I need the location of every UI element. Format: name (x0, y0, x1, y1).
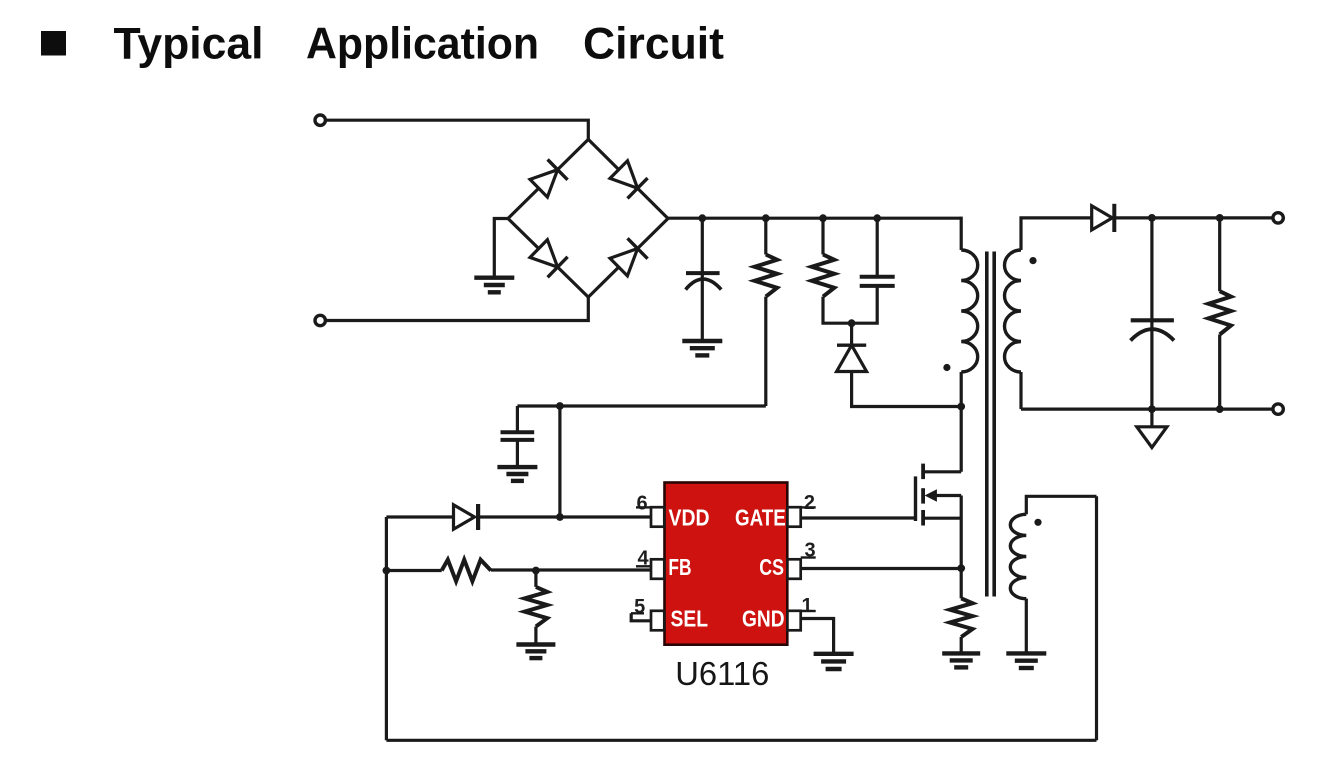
wire FB wire (491, 568, 651, 571)
wire R1 top lead (764, 218, 767, 254)
pin label GND (742, 605, 785, 631)
wire AC line bottom (326, 297, 589, 320)
resistor R1 (755, 255, 778, 297)
ground C1 (682, 341, 722, 355)
capacitor C4 plate top (501, 430, 535, 434)
wire bottom rail (386, 739, 1096, 742)
node outrail-R5 (1216, 405, 1224, 413)
pin label CS (759, 554, 784, 580)
svg-text:VDD: VDD (669, 504, 710, 530)
pin label FB (668, 554, 691, 580)
wire C3 lead (1150, 218, 1153, 409)
wire R5 bottom lead (1218, 335, 1221, 410)
pin number 2 (801, 492, 816, 514)
node bus-C2 (873, 214, 881, 222)
svg-text:1: 1 (801, 595, 812, 617)
pin number 3 (801, 540, 816, 562)
svg-text:GND: GND (742, 605, 785, 631)
node VDD junction (556, 513, 564, 521)
wire D5 cathode lead (850, 323, 853, 345)
wire secondary top lead (1021, 218, 1092, 250)
svg-text:GATE: GATE (735, 504, 786, 530)
svg-text:Circuit: Circuit (583, 20, 724, 69)
wire output top (1114, 216, 1273, 219)
wire CS wire (801, 567, 962, 570)
aux phase dot (1034, 519, 1041, 526)
ground bridge (474, 278, 514, 293)
node CS junction (957, 564, 965, 572)
capacitor C4 plate bottom (501, 438, 535, 442)
capacitor C3 plate (1131, 318, 1174, 322)
wire AC line top (326, 120, 589, 139)
transistor Q1 body stub (925, 489, 962, 502)
title bullet square (41, 31, 66, 56)
wire left vertical (385, 517, 388, 740)
wire FB lead (386, 569, 441, 572)
wire Q1 source line (960, 496, 963, 569)
pin number 6 (636, 492, 651, 514)
svg-text:6: 6 (636, 492, 647, 514)
pin 3 CS box (787, 559, 800, 579)
wire R6 top lead (534, 571, 537, 587)
node bus-R1 (762, 214, 770, 222)
transistor Q1 channel (921, 464, 925, 526)
wire secondary bottom lead (1019, 372, 1022, 409)
wire primary bottom lead (960, 372, 963, 472)
wire output bottom rail (1021, 408, 1273, 411)
node drain junction (957, 403, 965, 411)
svg-text:5: 5 (634, 596, 645, 618)
ground R6 (516, 645, 555, 659)
wire aux bottom lead (1025, 599, 1028, 654)
node FB divider junction (532, 567, 540, 575)
node bus-C1 (698, 214, 706, 222)
wire R4 top lead (960, 568, 963, 598)
wire VDD vertical (558, 406, 561, 517)
capacitor C3 curved plate (1131, 329, 1175, 340)
svg-text:FB: FB (668, 554, 691, 580)
output terminal bottom (1273, 404, 1283, 414)
resistor R4 (950, 598, 973, 637)
pin 4 FB box (651, 559, 664, 579)
wire R2 bottom lead (823, 297, 852, 324)
pin number 1 (801, 595, 816, 617)
diode D7 (454, 504, 479, 530)
transformer core (987, 252, 994, 597)
IC name U6116 (675, 655, 769, 692)
bridge diode D1 (530, 160, 568, 198)
wire D7 anode lead (386, 515, 453, 518)
wire R5 top lead (1218, 218, 1221, 291)
wire R4 bottom lead (960, 637, 963, 653)
wire D5 anode lead (852, 371, 962, 406)
wire C2 bottom lead (852, 286, 878, 323)
ground U1 GND (814, 654, 854, 669)
pin 2 GATE box (787, 507, 800, 527)
pin 5 SEL box (651, 611, 664, 631)
transistor Q1 source stub (923, 517, 961, 520)
wire bridge ground stub (494, 219, 508, 278)
pin label SEL (671, 605, 709, 631)
wire primary top lead (960, 217, 963, 250)
node outrail-C3 (1148, 405, 1156, 413)
wire DC bus (667, 217, 962, 220)
bridge diode D3 (530, 240, 568, 278)
secondary phase dot (1029, 257, 1036, 264)
wire bridge edge top-left (508, 139, 588, 218)
wire bridge edge top-right (588, 139, 668, 218)
diode D5 (837, 345, 867, 371)
svg-text:CS: CS (759, 554, 784, 580)
svg-text:Typical: Typical (114, 20, 264, 69)
svg-text:SEL: SEL (671, 605, 709, 631)
pin 1 GND box (787, 611, 800, 631)
resistor R2 (812, 255, 835, 297)
diode D6 (1092, 204, 1115, 232)
wire bridge edge bottom-right (588, 219, 668, 298)
wire C2 top lead (876, 218, 879, 277)
capacitor C2 plate bottom (860, 284, 895, 288)
resistor R6 (525, 587, 548, 627)
transformer aux winding (1010, 514, 1026, 598)
wire VDD rail (517, 404, 765, 407)
resistor R5 (1208, 291, 1231, 334)
wire output ground stub (1150, 409, 1153, 427)
wire R6 bottom lead (534, 627, 537, 645)
svg-text:Application: Application (306, 20, 539, 69)
capacitor C1 plate (686, 271, 720, 275)
pin 6 VDD box (651, 507, 664, 527)
pin label VDD (669, 504, 710, 530)
ground C4 (497, 467, 537, 481)
wire SEL stub (631, 613, 651, 621)
wire C4 top lead (516, 406, 519, 432)
ground R4 (942, 653, 980, 667)
svg-text:2: 2 (804, 492, 815, 514)
transistor Q1 gate bar (914, 476, 917, 521)
wire aux top lead (1026, 496, 1096, 514)
pin number 5 (631, 596, 645, 618)
AC input terminal top (315, 115, 325, 125)
resistor R3 (442, 560, 491, 582)
op-amp U1 body (665, 483, 788, 645)
ground output triangle (1137, 427, 1167, 448)
bridge diode D2 (610, 161, 648, 199)
wire GND lead (801, 619, 834, 654)
node output-C3 (1148, 214, 1156, 222)
wire aux right vertical (1095, 496, 1098, 740)
primary phase dot (943, 364, 950, 371)
transistor Q1 drain stub (923, 470, 961, 473)
wire R2 top lead (821, 218, 824, 254)
wire C1 lead (701, 218, 704, 341)
node bus-R2 (819, 214, 827, 222)
pin label GATE (735, 504, 786, 530)
pin number 4 (636, 548, 651, 570)
node FB left junction (383, 567, 391, 575)
node snubber junction (848, 319, 856, 327)
wire bridge edge bottom-left (508, 219, 588, 298)
wire VDD wire (478, 515, 651, 518)
AC input terminal bottom (315, 315, 325, 325)
capacitor C2 plate top (860, 275, 895, 279)
transformer primary winding (961, 250, 978, 372)
ground aux (1006, 653, 1046, 668)
capacitor C1 curved plate (686, 279, 722, 290)
bridge diode D4 (610, 238, 648, 276)
svg-text:U6116: U6116 (675, 655, 769, 692)
title text (114, 20, 725, 69)
node VDD rail junction (556, 402, 564, 410)
wire C4 bottom lead (516, 440, 519, 467)
wire R1 bottom lead (764, 297, 767, 406)
output terminal top (1273, 213, 1283, 223)
transformer secondary winding (1005, 250, 1022, 372)
node output-R5 (1216, 214, 1224, 222)
transistor Q1 gate wire (801, 516, 916, 519)
